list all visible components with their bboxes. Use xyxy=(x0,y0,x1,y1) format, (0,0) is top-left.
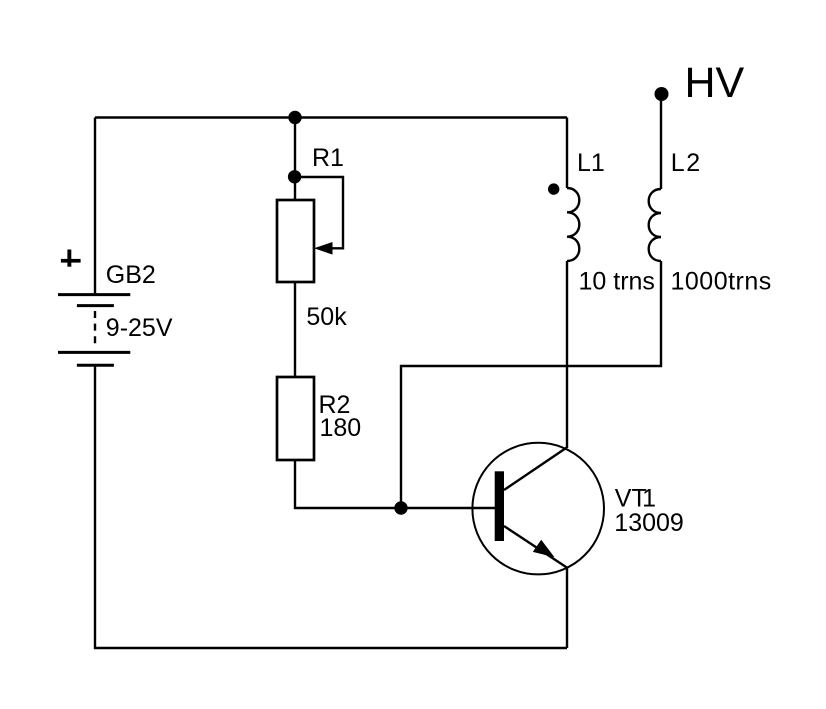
svg-text:180: 180 xyxy=(320,414,362,442)
svg-text:9-25V: 9-25V xyxy=(106,314,173,342)
svg-text:L2: L2 xyxy=(671,149,702,177)
svg-text:1000trns: 1000trns xyxy=(671,268,772,296)
svg-text:R1: R1 xyxy=(312,144,344,172)
svg-text:L1: L1 xyxy=(577,149,605,177)
svg-text:13009: 13009 xyxy=(614,509,684,537)
svg-text:10 trns: 10 trns xyxy=(579,268,655,296)
svg-text:GB2: GB2 xyxy=(106,261,156,289)
svg-text:HV: HV xyxy=(685,59,745,107)
svg-text:50k: 50k xyxy=(306,303,347,331)
